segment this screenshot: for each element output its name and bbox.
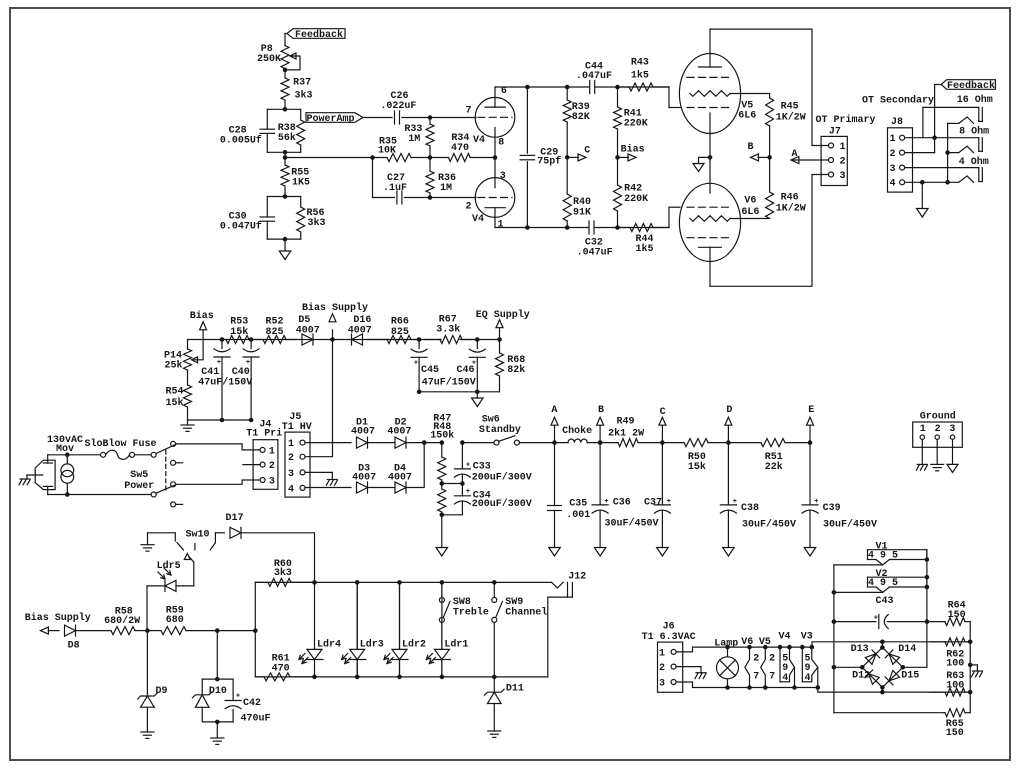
svg-text:100: 100 (946, 658, 964, 669)
diode D8 (65, 625, 76, 636)
node C rail (660, 440, 665, 445)
svg-text:V4: V4 (473, 135, 485, 146)
wire D17 to LDR rail (241, 533, 315, 583)
switch SW9 Channel (492, 580, 497, 585)
flag PowerAmp (306, 113, 363, 123)
svg-text:B: B (747, 142, 753, 153)
main B+ rail (462, 442, 494, 444)
svg-text:Bias Supply: Bias Supply (302, 302, 368, 314)
node R47 top (440, 440, 445, 445)
node C42 junction (215, 628, 220, 633)
node C arrow (567, 156, 578, 158)
chassis ground at plug (26, 475, 28, 479)
svg-text:Sw10: Sw10 (185, 529, 209, 540)
wire J8 pin4 common (905, 181, 959, 183)
svg-text:8: 8 (498, 137, 504, 148)
svg-text:825: 825 (391, 327, 409, 338)
svg-text:C41: C41 (201, 367, 219, 378)
svg-text:C36: C36 (613, 498, 631, 509)
diode D17 (230, 527, 241, 538)
jack 16 Ohm (978, 107, 980, 121)
svg-text:3k3: 3k3 (308, 217, 326, 229)
resistor R45 1K/2W (769, 94, 771, 99)
diode D5 4007 (302, 334, 313, 345)
svg-text:.047uF: .047uF (576, 71, 612, 82)
svg-text:Bias: Bias (621, 144, 645, 156)
svg-text:150: 150 (948, 610, 966, 621)
node R39 top (565, 85, 570, 90)
resistor R50 15k (662, 442, 684, 444)
ground open triangle below J8 (917, 209, 929, 218)
svg-text:2: 2 (465, 202, 471, 213)
svg-text:3k3: 3k3 (295, 89, 313, 101)
node R47/R48 junction (440, 481, 445, 486)
ground open triangle below C30 (279, 251, 291, 260)
svg-text:R40: R40 (573, 197, 591, 208)
potentiometer P8 250K (284, 44, 286, 46)
resistor R42 220K (617, 157, 619, 185)
svg-text:4007: 4007 (352, 473, 376, 484)
svg-text:1K/2W: 1K/2W (776, 203, 806, 215)
svg-text:C: C (584, 146, 590, 157)
chassis ground at right rail (970, 664, 977, 666)
wire J4 pin2 stub (243, 464, 260, 466)
ground triangle below C36 (594, 548, 606, 557)
svg-text:3k3: 3k3 (274, 567, 292, 579)
ground bars below C42 box (211, 737, 224, 739)
resistor R56 3k3 (300, 197, 302, 208)
diode D1 4007 (357, 437, 368, 448)
triode V4 upper (pins 6,7,8) (475, 97, 515, 137)
wire D3 to D4 (368, 487, 396, 489)
wire R43 to V5 grid (668, 87, 670, 108)
wire R35 to node (411, 157, 430, 159)
svg-text:A: A (551, 405, 557, 416)
capacitor C30 0.047Uf (266, 197, 268, 218)
svg-text:680: 680 (166, 615, 184, 626)
svg-text:56k: 56k (278, 132, 296, 144)
svg-text:4: 4 (804, 673, 810, 684)
resistor R48 (441, 484, 443, 490)
vertical bus left (254, 582, 256, 677)
capacitor C38 30uF/450V (727, 443, 729, 505)
svg-text:+: + (814, 498, 818, 506)
ground bars below D9 (141, 731, 154, 733)
svg-text:SW8: SW8 (453, 597, 471, 608)
svg-text:47uF/150V: 47uF/150V (422, 377, 476, 389)
svg-text:15k: 15k (230, 326, 248, 338)
wire J6 pin1 to heater top rail (676, 647, 812, 652)
node R48 bottom (440, 513, 445, 518)
svg-text:1k5: 1k5 (635, 243, 653, 255)
wire R44 to V6 grid (668, 207, 670, 227)
node D9 junction (145, 628, 150, 633)
ground bars below R54 (187, 420, 189, 425)
ground pin3 triangle (952, 439, 954, 464)
svg-text:1k5: 1k5 (631, 70, 649, 82)
resistor R65 150 (944, 712, 945, 714)
svg-text:2: 2 (269, 461, 275, 472)
svg-text:SloBlow Fuse: SloBlow Fuse (84, 438, 156, 450)
bridge rectifier D12 D13 D14 D15 (880, 640, 885, 645)
svg-text:+: + (733, 498, 737, 506)
svg-text:2: 2 (840, 156, 846, 167)
svg-text:J7: J7 (829, 126, 841, 137)
wire V6 plate to J7 pin3 (710, 175, 829, 287)
svg-text:Ldr3: Ldr3 (360, 639, 384, 651)
wire bridge right to inner rail (903, 666, 927, 668)
wire heater top rail step to bridge row (812, 642, 970, 647)
svg-text:0.005Uf: 0.005Uf (220, 134, 262, 146)
svg-text:+: + (236, 693, 240, 701)
svg-text:4: 4 (889, 179, 895, 190)
svg-text:R66: R66 (391, 316, 409, 327)
wire grid node to V4 pin7 (430, 117, 476, 119)
node Bias Supply tap (330, 337, 335, 342)
svg-text:Feedback: Feedback (947, 80, 995, 92)
node R37/R38 junction (283, 107, 288, 112)
resistor R58 680/2W (108, 630, 111, 632)
ground pin2 earth (936, 439, 938, 464)
svg-text:Mov: Mov (56, 444, 74, 455)
svg-text:.001: .001 (566, 510, 590, 521)
svg-text:B: B (598, 405, 604, 416)
wire bottom rail pin1 to R44 (495, 227, 669, 229)
capacitor C29 75pf (526, 87, 528, 153)
ground bars at Sw10 (141, 544, 154, 546)
svg-text:220K: 220K (624, 118, 648, 129)
capacitor C35 .001 (554, 443, 556, 506)
heater V4 (pins 5,9,4) (778, 645, 783, 650)
svg-text:D10: D10 (209, 686, 227, 697)
wire D8 to R58 (76, 630, 109, 632)
svg-text:16 Ohm: 16 Ohm (957, 94, 993, 106)
wire heater bottom rail step to R63 row (818, 688, 970, 693)
svg-text:200uF/300V: 200uF/300V (472, 471, 532, 483)
svg-text:100: 100 (946, 680, 964, 691)
svg-text:+: + (414, 359, 418, 367)
svg-text:C42: C42 (243, 698, 261, 709)
resistor R60 3k3 on top rail (255, 581, 268, 583)
capacitor C36 30uF/450V (599, 443, 601, 505)
svg-text:2: 2 (889, 149, 895, 160)
ground lead and triangle below R48 (441, 515, 443, 548)
ground pin1 chassis (921, 439, 923, 464)
svg-text:R53: R53 (230, 316, 248, 327)
svg-text:2: 2 (753, 654, 759, 665)
wire R59 row to LDR bus (217, 630, 255, 632)
svg-text:C37: C37 (644, 498, 662, 509)
resistor R43 1k5 (618, 86, 630, 88)
box D10 C42 (202, 678, 233, 680)
node R41 top (615, 85, 620, 90)
resistor R61 470 on bottom rail (255, 676, 264, 678)
svg-text:7: 7 (769, 672, 775, 683)
Ldr4 vactrol (312, 580, 317, 585)
Ldr1 vactrol below SW8 (441, 622, 443, 649)
svg-text:6L6: 6L6 (741, 207, 759, 218)
svg-text:R43: R43 (631, 57, 649, 68)
wire C43 row to R64 (927, 621, 944, 623)
resistor R55 1K5 (284, 158, 286, 166)
jack normal bus vertical (947, 123, 949, 182)
resistor R36 1M (429, 158, 431, 172)
svg-text:1: 1 (659, 648, 665, 659)
svg-text:680/2W: 680/2W (104, 615, 140, 627)
svg-text:6: 6 (501, 86, 507, 97)
resistor R44 1k5 (618, 227, 631, 229)
diode D2 4007 (395, 437, 406, 448)
svg-text:4007: 4007 (348, 325, 372, 336)
wire J6 pin2 to chassis (676, 666, 701, 668)
capacitor C40 /150V (249, 337, 254, 342)
resistor R41 220K (617, 87, 619, 107)
svg-text:Ldr2: Ldr2 (402, 639, 426, 651)
svg-text:D13: D13 (851, 644, 869, 655)
wire C27 to node (404, 197, 430, 199)
diode D3 4007 (357, 482, 368, 493)
ground bars below D11 (488, 730, 501, 732)
svg-text:3: 3 (889, 164, 895, 175)
svg-text:C45: C45 (421, 365, 439, 376)
svg-text:V4: V4 (472, 214, 484, 225)
resistor R62 100 (930, 641, 945, 643)
long wire tail row from R38 junction (285, 157, 387, 159)
wire top rail pin6 to C44/R43 (495, 86, 669, 88)
svg-text:1K5: 1K5 (292, 177, 310, 188)
svg-text:R45: R45 (781, 101, 799, 112)
zener diode D10 (195, 695, 209, 708)
svg-text:Bias Supply: Bias Supply (25, 612, 91, 624)
svg-text:V6: V6 (744, 196, 756, 207)
svg-text:PowerAmp: PowerAmp (306, 114, 354, 125)
capacitor C33 200uF/300V (460, 440, 465, 445)
wire plug top to fuse (48, 454, 101, 456)
svg-text:T1 Pri: T1 Pri (246, 428, 282, 440)
svg-text:4007: 4007 (388, 473, 412, 484)
svg-text:C39: C39 (823, 503, 841, 514)
svg-text:EQ Supply: EQ Supply (476, 309, 530, 321)
svg-text:3: 3 (269, 476, 275, 487)
bias rail (188, 339, 441, 341)
node C arrow junction (565, 155, 570, 160)
wire Sw5 to J4 pin1 (176, 444, 261, 450)
Ldr5 light arrows (158, 572, 165, 579)
zener diode D9 (146, 631, 148, 696)
wire fuse to Sw5 (135, 454, 152, 456)
svg-text:3: 3 (288, 469, 294, 480)
wire J8 pin1 to 8 ohm jack and 16 ohm jack (905, 137, 979, 139)
varistor Mov (61, 464, 74, 477)
svg-text:Sw5: Sw5 (130, 470, 148, 481)
AC plug 130vAC (35, 460, 55, 489)
EQ ground rail (419, 391, 499, 393)
svg-text:D11: D11 (506, 684, 524, 695)
beam tetrode V5 6L6 (679, 54, 740, 134)
wire J8 pin2 stub (905, 152, 935, 154)
wire V2 center tap to rail (834, 591, 883, 593)
svg-text:Feedback: Feedback (295, 29, 343, 41)
node EQ Supply (497, 337, 502, 342)
svg-text:C46: C46 (456, 365, 474, 376)
heater V5 (pins 2,7) (763, 645, 768, 650)
svg-text:Ldr1: Ldr1 (444, 639, 468, 651)
wire J5 pin4 to D3 (305, 487, 351, 489)
svg-text:75pf: 75pf (537, 155, 561, 167)
svg-text:0.047Uf: 0.047Uf (220, 220, 262, 232)
svg-text:R37: R37 (293, 78, 311, 89)
svg-text:+: + (667, 498, 671, 506)
svg-text:C38: C38 (741, 503, 759, 514)
node A arrow to J7 pin2 (793, 159, 829, 161)
heater V6 (pins 2,7) (747, 645, 752, 650)
svg-text:C40: C40 (232, 367, 250, 378)
resistor R54 15k (187, 372, 189, 385)
capacitor C39 30uF/450V (809, 443, 811, 505)
svg-text:Sw6: Sw6 (482, 414, 500, 425)
svg-text:D15: D15 (901, 671, 919, 682)
wire C27 branch down (372, 158, 374, 198)
wire plug bottom (48, 494, 152, 496)
resistor R68 82k (499, 340, 501, 354)
svg-text:C43: C43 (875, 596, 893, 607)
resistor R51 22k (728, 442, 761, 444)
svg-text:47uF/150V: 47uF/150V (198, 376, 252, 388)
svg-text:82k: 82k (507, 364, 525, 376)
capacitor C37 (661, 443, 663, 505)
svg-text:150k: 150k (430, 429, 454, 441)
bias ground rail (188, 419, 252, 421)
wire cathode to V6 (709, 157, 711, 193)
beam tetrode V6 6L6 (679, 183, 740, 261)
resistor R34 470 (430, 157, 448, 159)
svg-text:15k: 15k (688, 461, 706, 473)
svg-text:J12: J12 (568, 572, 586, 583)
LDR bottom rail (255, 676, 548, 678)
node C42 bottom / ground (215, 720, 220, 725)
svg-text:2: 2 (769, 654, 775, 665)
svg-text:15k: 15k (165, 397, 183, 409)
svg-text:Ldr5: Ldr5 (157, 560, 181, 572)
svg-text:Ldr4: Ldr4 (317, 639, 341, 651)
ground arrow below cathodes (693, 164, 704, 172)
resistor R49 2k1 2W (617, 442, 618, 444)
svg-text:2: 2 (659, 663, 665, 674)
svg-text:470: 470 (272, 664, 290, 675)
svg-text:+: + (466, 461, 470, 469)
resistor R39 82K (566, 87, 568, 100)
wire bias tap down to J5 pin2 (303, 340, 333, 457)
node C29 top (525, 85, 530, 90)
svg-text:V5: V5 (759, 637, 771, 648)
svg-text:Bias: Bias (190, 310, 214, 322)
svg-text:4007: 4007 (351, 427, 375, 438)
node C29 bottom (525, 225, 530, 230)
svg-text:E: E (808, 405, 814, 416)
wire J5 pin1 to D1 (305, 442, 351, 444)
svg-text:4007: 4007 (387, 427, 411, 438)
svg-text:25k: 25k (164, 359, 182, 371)
svg-text:R46: R46 (781, 193, 799, 204)
wire choke to node B (587, 442, 617, 444)
wire to D10/C42 box (216, 631, 218, 680)
svg-text:6L6: 6L6 (738, 111, 756, 122)
parallel network C28 R38 box (267, 108, 300, 110)
resistor R53 15k (222, 339, 226, 341)
svg-text:V5: V5 (741, 100, 753, 111)
triode V4 lower (pins 3,2,1) (475, 178, 515, 218)
resistor R63 100 (930, 691, 945, 693)
capacitor C27 .1uF (396, 191, 398, 204)
node E rail (808, 440, 813, 445)
svg-text:.1uF: .1uF (383, 183, 407, 194)
node D rail (726, 440, 731, 445)
svg-text:30uF/450V: 30uF/450V (823, 518, 877, 530)
svg-text:OT Primary: OT Primary (815, 114, 875, 126)
svg-text:7: 7 (465, 106, 471, 117)
svg-text:10K: 10K (378, 146, 396, 157)
svg-text:22k: 22k (765, 461, 783, 473)
svg-text:1: 1 (288, 439, 294, 450)
svg-text:3: 3 (500, 171, 506, 182)
svg-text:30uF/450V: 30uF/450V (742, 518, 796, 530)
parallel network C30 R56 box (267, 196, 300, 198)
wire flag to P8 (285, 33, 287, 35)
svg-text:+: + (604, 498, 608, 506)
svg-text:470uF: 470uF (240, 713, 270, 724)
node R40 bottom (565, 225, 570, 230)
svg-text:Ground: Ground (920, 410, 956, 422)
svg-text:2: 2 (288, 453, 294, 464)
node B rail (598, 440, 603, 445)
svg-text:.047uF: .047uF (577, 248, 613, 259)
svg-text:V6: V6 (741, 637, 753, 648)
node V5/V6 cathode ground (708, 155, 713, 160)
capacitor C41 47uF/150V (220, 337, 225, 342)
wire J5 pin3 to chassis ground (305, 471, 332, 473)
wire J6 pin3 to heater bottom rail (676, 682, 818, 688)
capacitor C42 470uF (225, 700, 241, 702)
wire D1 to D2 (368, 442, 396, 444)
svg-text:R54: R54 (165, 386, 183, 397)
capacitor C44 .047uF on top rail (590, 81, 595, 94)
svg-text:D14: D14 (898, 644, 916, 655)
ground lead from pin4 (921, 182, 923, 208)
svg-text:1: 1 (269, 446, 275, 457)
svg-text:3: 3 (949, 424, 955, 435)
ground triangle below C35 (549, 548, 561, 557)
svg-text:Choke: Choke (562, 425, 592, 437)
diode D16 4007 (352, 334, 363, 345)
svg-text:Treble: Treble (453, 607, 489, 619)
wire V5 plate to J7 pin1 (710, 29, 829, 145)
jack 8 Ohm (978, 138, 980, 152)
resistor R37 3k3 (284, 70, 286, 78)
svg-text:.022uF: .022uF (380, 101, 416, 112)
svg-text:7: 7 (753, 672, 759, 683)
svg-text:150: 150 (946, 728, 964, 739)
svg-text:1M: 1M (440, 183, 452, 194)
svg-text:3: 3 (659, 678, 665, 689)
wire node to V4 pin2 (430, 197, 476, 199)
wire feedback to J8 pin2 (935, 85, 942, 153)
node R55/C30 junction (283, 194, 288, 199)
svg-text:2k1 2W: 2k1 2W (608, 428, 644, 440)
wire V1 center tap to rail (834, 564, 883, 566)
node B junction (767, 155, 772, 160)
wire Sw10 to D17 (215, 532, 224, 534)
svg-text:4 9 5: 4 9 5 (868, 578, 898, 589)
